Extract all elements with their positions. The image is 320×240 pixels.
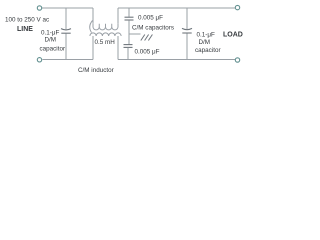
inductor L1 C/M choke : bottom winding lead right (117, 36, 119, 60)
svg-text:0.1-μF: 0.1-μF (197, 32, 215, 39)
inductor L1 C/M choke : top winding lead right (117, 8, 119, 24)
svg-text:capacitor: capacitor (195, 47, 221, 54)
capacitor C2 top C/M 0.005uF : plates (125, 17, 134, 20)
svg-text:capacitor: capacitor (40, 46, 66, 53)
svg-text:C/M capacitors: C/M capacitors (132, 25, 174, 32)
inductor L1 C/M choke : top winding cups (93, 24, 118, 30)
wire bottom rail left segment (43, 59, 94, 61)
inductor L1 C/M choke : left entry curl (90, 21, 93, 33)
svg-text:0.1-μF: 0.1-μF (41, 30, 59, 37)
terminal line top-left (37, 6, 41, 10)
inductor L1 C/M choke : bottom winding lead left (92, 36, 94, 60)
terminal load bottom-right (235, 58, 239, 62)
wire top rail left segment (42, 7, 93, 9)
wire between C/M capacitors (128, 20, 130, 44)
svg-text:100 to 250 V ac: 100 to 250 V ac (5, 17, 49, 24)
svg-text:C/M inductor: C/M inductor (78, 67, 114, 74)
wire bottom rail right segment (118, 59, 235, 61)
svg-text:0.005 μF: 0.005 μF (135, 49, 160, 56)
svg-text:LINE: LINE (17, 26, 33, 33)
svg-text:LOAD: LOAD (223, 32, 243, 39)
capacitor C1 left D/M 0.1uF : leads (65, 8, 67, 60)
svg-text:0.005 μF: 0.005 μF (138, 15, 163, 22)
capacitor C4 right D/M 0.1uF : plates (182, 28, 192, 33)
terminal load top-right (235, 5, 239, 9)
svg-text:D/M: D/M (45, 37, 57, 44)
svg-text:D/M: D/M (199, 39, 211, 46)
svg-text:0.5 mH: 0.5 mH (95, 39, 116, 46)
capacitor C3 bottom C/M 0.005uF : lead (127, 48, 129, 60)
inductor L1 C/M choke : bottom winding caps (90, 33, 121, 36)
capacitor C3 bottom C/M 0.005uF : plates (124, 45, 133, 48)
capacitor C2 top C/M 0.005uF : lead (128, 8, 130, 17)
capacitor C4 right D/M 0.1uF : leads (186, 8, 188, 60)
terminal line bottom-left (37, 58, 41, 62)
ground chassis symbol (141, 35, 153, 41)
wire ground tap (129, 33, 141, 35)
inductor L1 C/M choke : top winding lead left (92, 8, 94, 24)
capacitor C1 left D/M 0.1uF : plates (61, 29, 71, 34)
wire top rail right segment (118, 7, 235, 9)
